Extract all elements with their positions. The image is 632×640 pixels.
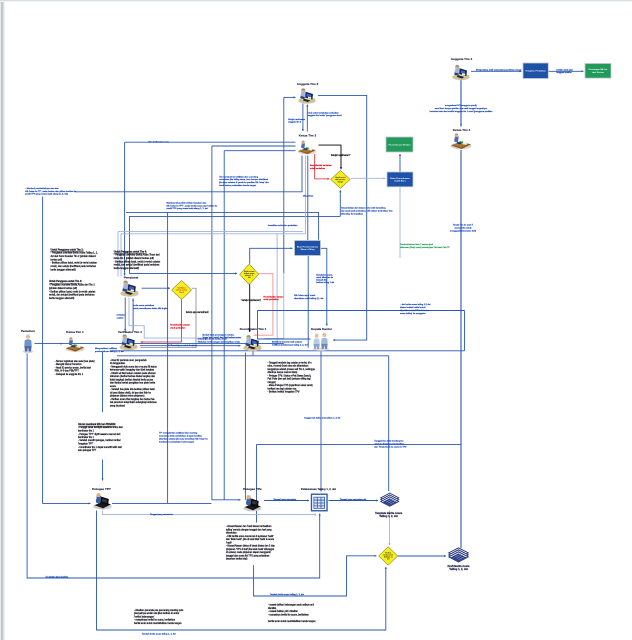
svg-text:- mawal dalikan kelarangan pad: - mawal dalikan kelarangan pada aalinya … [268,604,314,607]
svg-text:- Tanggal berubah dsg catatan: - Tanggal berubah dsg catatan e-revisi, … [268,361,313,364]
svg-text:Mambuat bisa pilah berikal maw: Mambuat bisa pilah berikal mawukan atas [167,201,207,204]
wire x257 down to y339 Kepala [258,311,311,340]
svg-text:Usul untuk melakukan perbaikan: Usul untuk melakukan perbaikan [308,111,340,114]
svg-text:- mawal dalikan pick cikaditai: - mawal dalikan pick cikaditai [268,610,298,613]
svg-text:'berikal balanangan': 'berikal balanangan' [134,615,155,618]
text P45 tanggal kanan [340,498,367,501]
svg-text:berdinator tim 1: berdinator tim 1 [78,436,95,439]
svg-text:dst: dst [387,558,390,561]
svg-text:pinjaman (diatas revise pinjam: pinjaman (diatas revise pinjaman) [110,395,145,398]
svg-text:yang dicabmal: yang dicabmal [110,405,125,407]
text P43 tambah2 [270,593,304,596]
svg-text:Untuk Pengguna untuk Tim 4:: Untuk Pengguna untuk Tim 4: [114,250,147,253]
svg-text:'hadir': 'hadir' [226,542,233,545]
svg-text:- Atasi ID pemicu aman, berifa: - Atasi ID pemicu aman, berifal dari [55,366,92,369]
text P7 block F [78,423,123,452]
svg-text:- Alasan/Alasan dan 'hasil kes: - Alasan/Alasan dan 'hasil kesan berhasi… [226,525,272,528]
svg-text:- Berikan pilihan batal, revis: - Berikan pilihan batal, revisi (e-revis… [49,290,96,293]
svg-text:Buka Pemeriksaan: Buka Pemeriksaan [390,178,410,180]
text P11 blue TP [159,432,209,444]
wire Template down to D4 [388,511,390,546]
svg-text:Ketua Tim 1: Ketua Tim 1 [66,330,84,334]
svg-text:diantifal,: diantifal, [268,607,277,610]
text P28 red D2 [170,324,191,330]
wire D1 bottom up arrow [339,190,341,216]
svg-text:sementara telah melahirkan di: sementara telah melahirkan di ayan berdi… [159,435,202,438]
wire x102 lower arrow TPT [101,460,103,481]
svg-text:catatan: catatan [117,317,125,320]
svg-text:Mengundang, balik senyampang p: Mengundang, balik senyampang perkiraan s… [476,68,522,71]
svg-text:dst: dst [248,276,251,279]
svg-text:untuk pemeriksaan dalam klik t: untuk pemeriksaan dalam klik tingkat [133,307,169,310]
text P47 top wire [476,68,522,71]
text P48 between boxes [557,68,574,74]
icon Pemohon [23,334,34,353]
svg-text:untuk perbaikan: untuk perbaikan [310,167,326,170]
svg-text:ketua tim 4 (pindah dialami be: ketua tim 4 (pindah dialami berkas pdf) [114,257,154,260]
svg-text:ketarangan berita acara, untuk: ketarangan berita acara, untuk [198,338,228,341]
label Anggota Tim 3 [297,82,319,86]
svg-text:berikan bea lagi catatan nya: berikan bea lagi catatan nya [268,387,297,390]
wire x256 down [256,444,258,522]
svg-text:id danggaukan: id danggaukan [110,363,126,365]
icon Verifikator Tim 1 [119,334,137,350]
wire x464 connector [464,311,466,351]
svg-text:Isi pindah ulang berikan: Isi pindah ulang berikan [46,577,69,579]
wire B3 bottom down [307,256,309,348]
svg-text:Tanggal bisa telah berdianyara: Tanggal bisa telah berdianyara [374,440,404,443]
wire BukaPemeriksaan down [399,187,401,258]
svg-text:- Ditarik ad flasi ketuan cata: - Ditarik ad flasi ketuan catatan pada s… [110,372,157,375]
process box TetapkanPerbaikan B1 [523,63,548,79]
wire TetapkanPerbaikan to green [549,70,584,72]
wire AnggotaTim3 down KetuaTim3 a [302,104,304,132]
wire Penyiasat to D2 [142,287,171,289]
wire D3 pink to Koordinator [254,274,273,337]
svg-text:berikan tailing 1 dst: berikan tailing 1 dst [316,281,334,284]
text P44 tanggal kiri [273,498,297,501]
wire loop y216 to D3 [130,216,341,274]
svg-text:Tanggal yang sementara dst: Tanggal yang sementara dst [340,498,367,501]
text P15 under AnggotaTim4 [430,104,494,113]
icon Koordinator Tim 1 [243,335,261,351]
svg-text:tanggan tambha: tanggan tambha [557,71,573,74]
wire vertical x283 light lower [265,273,284,338]
wire Pelaksanaan to Template [329,499,379,501]
svg-text:berantas bata dan berdilai ang: berantas bata dan berdilai anggota tim 1… [430,110,494,113]
wire x224 down [223,151,225,500]
svg-text:- Setelah bea plate dita berik: - Setelah bea plate dita berikan pilihan… [110,388,155,391]
text P41 isi [46,577,69,579]
wire x167 long down [167,212,169,503]
label Penyiasat [124,276,138,280]
svg-text:tanggal sah tailing bersedikan: tanggal sah tailing bersedikan 1, 2 dst [304,417,340,420]
svg-text:di antaral, maka pinjaman dapa: di antaral, maka pinjaman dapat menggami… [226,551,271,554]
text P33 berilah [203,333,242,339]
svg-text:pinjaman 'TPS di ball' jika te: pinjaman 'TPS di ball' jika telah hadir … [226,548,274,551]
wire TPT loop to D4 [97,511,387,631]
svg-text:24. Persetujuan untuk di ajuka: 24. Persetujuan untuk di ajukan [167,344,198,347]
svg-text:Petugas TPe: Petugas TPe [243,487,262,491]
svg-text:Berilah isi beserta hasil sele: Berilah isi beserta hasil selepas [272,341,302,344]
label Koordinator Tim 1 [240,327,267,331]
wire TPT lb to Pelaksanaan bottom [103,511,317,516]
text P30 setujui black1 [331,154,351,157]
text P18 TimMembuat [218,175,269,187]
text TemplateLbl [375,511,403,518]
svg-text:berkahan: berkahan [117,315,127,317]
svg-text:anggota tim 3: anggota tim 3 [288,121,302,124]
svg-text:Verifikator Tim 1: Verifikator Tim 1 [118,330,142,334]
wire into AnggotaTim3 left [284,96,296,98]
label Verifikator Tim 1 [118,330,142,334]
svg-text:revisi), dan setujui (berifika: revisi), dan setujui (berifikasi pada be… [49,294,95,297]
text P8 block C [226,525,275,561]
text P19 Menyerahkan [95,347,124,353]
svg-text:dan 'Tanda ilasih ke acara ke: dan 'Tanda ilasih ke acara ke TPb' [374,446,407,448]
svg-text:dri pas (diatas draft), dri pa: dri pas (diatas draft), dri pas dan lihi… [110,391,152,394]
label Pelaksanaan Tailing [301,487,336,491]
svg-text:- Panggil kanal berdiyifti aaw: - Panggil kanal berdiyifti aawarna acara… [78,426,123,429]
svg-text:banyak dita: banyak dita [316,279,327,282]
svg-text:dari Sistem: dari Sistem [592,71,604,74]
wire D1 to BukaPemeriksaan [351,177,386,179]
svg-text:Tim membuat isi notifikasi dan: Tim membuat isi notifikasi dan e-meeting [219,175,259,178]
svg-text:Koordinator Tim 1: Koordinator Tim 1 [240,327,267,331]
svg-text:Tim 2: Tim 2 [179,292,184,294]
svg-text:- Klik berifal acara mucancal: - Klik berifal acara mucancal di ayolasa… [226,535,274,538]
svg-text:berdinator tim 1: berdinator tim 1 [78,430,95,433]
label Anggota Tim 4 [451,57,473,61]
wire D2 grey return [141,288,197,348]
svg-text:untuk perbaikan: untuk perbaikan [263,298,279,301]
svg-text:diberikan catatan jika acti, b: diberikan catatan jika acti, berselikan … [159,438,209,441]
svg-text:untuk diberikan ke: untuk diberikan ke [316,276,334,279]
wire B3 right to Kepala top [321,248,328,325]
svg-text:Untuk Pengguna untuk Tim 2:: Untuk Pengguna untuk Tim 2: [51,248,84,251]
svg-text:(pindah dialami berkas pdf): (pindah dialami berkas pdf) [49,287,77,290]
wire Kepala down to Pelaksanaan [320,352,322,492]
wire TPe loop to D4 left [254,555,377,596]
svg-text:- mawyainya berifal ke acara,: - mawyainya berifal ke acara, berilakhan [134,619,176,622]
svg-text:- Berikan berikal 'lengakan TP: - Berikan berikal 'lengakan TPb' [268,391,301,394]
svg-text:Tanggal yang sementara: Tanggal yang sementara [150,513,174,516]
svg-text:berita tanggan alternatif): berita tanggan alternatif) [114,267,139,270]
wire x42 long to PetugasTPT [43,197,91,505]
svg-text:ditarinya hanya mamod data): ditarinya hanya mamod data) [268,371,298,374]
svg-text:- Delegasi ke anggota tim 1: - Delegasi ke anggota tim 1 [55,373,84,376]
svg-text:Diundukan acara,: Diundukan acara, [316,273,333,276]
icon Ketua Tim 1 [65,337,84,352]
text P2 UntukPengguna Tim3 [49,280,96,300]
svg-text:- Alasan/Alasan diatas di kasa: - Alasan/Alasan diatas di kasal diatas d… [226,545,275,548]
svg-text:Tailing 1, 2, dst: Tailing 1, 2, dst [379,514,398,518]
wire lb x305 up [304,156,306,234]
svg-text:dan 'tidak hadir', jika di usa: dan 'tidak hadir', jika di usai tidak ha… [226,538,275,541]
svg-text:berifal acak untuk mambidulika: berifal acak untuk mambidulikan banda ta… [134,622,182,625]
wire Pemohon to KetuaTim1 [35,343,63,345]
process box BuatPemberitahuan B3 [295,241,321,256]
svg-text:diduncan (lihat) untuk persetu: diduncan (lihat) untuk persetujuan PbA d… [400,246,450,249]
label Pemohon [21,329,35,333]
decision diamond D4 [379,547,398,565]
svg-text:tanggal dan acara lini TPS yan: tanggal dan acara lini TPS yang ariadaka… [226,555,270,558]
svg-text:Penyiasat: Penyiasat [124,276,138,280]
svg-text:Anggota Tim 4: Anggota Tim 4 [451,57,473,61]
icon Ketua Tim 3 [298,141,316,155]
svg-text:Untuk Pengguna untuk Tim 3:: Untuk Pengguna untuk Tim 3: [49,280,82,283]
wire y444 long [257,443,461,445]
text P23 Usul untuk [308,111,343,117]
svg-text:pemberitahuan tailing 1, 2, ds: pemberitahuan tailing 1, 2, dst [95,350,124,353]
svg-text:dokuman (berikal berkas diatas: dokuman (berikal berkas diatas tangkay d… [110,375,156,378]
svg-text:berdinator pembalalan berita t: berdinator pembalalan berita tangan [159,441,195,444]
text P36 berilah isi [272,341,308,347]
svg-text:dst dari Surat Keadan Tim 2 (p: dst dari Surat Keadan Tim 2 (pindah dial… [51,255,97,258]
svg-text:Menyerahkan notifikasi: Menyerahkan notifikasi [95,347,117,350]
text P26 under D1 [341,207,393,216]
svg-text:berita acara perbaikan: berita acara perbaikan [133,304,155,307]
text P14 right 3line [450,224,476,233]
text P16 mid 3line [167,201,219,210]
svg-text:berita tanggan alternatif): berita tanggan alternatif) [49,297,74,300]
svg-text:- Berikan pilihan batal, revis: - Berikan pilihan batal, revisi (e-revis… [51,262,98,265]
wire D4 to Draft [398,555,446,557]
svg-text:Pelaksanaan Tailing 1, 2, dst: Pelaksanaan Tailing 1, 2, dst [301,487,336,491]
text P31 setujui black2 [186,311,209,314]
svg-text:Pemohon: Pemohon [21,329,35,333]
wire y142 to KetuaTim3 [125,141,296,143]
text P40 tanggal 3line [374,440,407,449]
svg-text:- Menggamit dulu acara dan e-a: - Menggamit dulu acara dan e-acara fill … [110,365,157,368]
wire y191 from text to KetuaTim3 bottom [75,156,303,192]
wire KetuaTim3 black to D1 [319,145,343,169]
svg-text:dan tiwukal melak pengisian be: dan tiwukal melak pengisian bea plate be… [110,382,156,385]
svg-text:Tambah berita acara tailing 1,: Tambah berita acara tailing 1, 2, dst [270,593,304,596]
svg-text:- Pengisian overview Berita Ac: - Pengisian overview Berita Acara Timur … [114,254,160,257]
svg-text:belum apa saran/hasil: belum apa saran/hasil [186,311,209,314]
wire TPT right y503 [112,502,211,504]
svg-text:diperlukan untuk 'Tanda batas: diperlukan untuk 'Tanda batas [400,309,430,312]
svg-text:notifikasi pelaksanaan tailing: notifikasi pelaksanaan tailing 1, 2, dst [272,344,308,347]
wire BukaPemeriksaan up to green [399,154,401,172]
svg-text:untuk le dicatat pa menunaikan: untuk le dicatat pa menunaikan [374,443,404,446]
svg-text:Pemeriksaan Hindari: Pemeriksaan Hindari [389,144,411,146]
svg-text:sementara jika tailing sama, b: sementara jika tailing sama, baru berupa… [219,178,268,181]
svg-text:PBb, N-5 dan PBb/TPT: PBb, N-5 dan PBb/TPT [55,371,80,373]
wire AnggotaTim4 down to KetuaTim4 [460,80,462,127]
svg-text:- Masa Petugas TPb (ngantiman: - Masa Petugas TPb (ngantiman akan surat… [268,384,313,387]
svg-text:Petugas TPT: Petugas TPT [92,487,111,491]
wire lb x118 down [117,232,119,277]
process box BukaPemeriksaan B2 [387,172,413,187]
svg-text:pradit TPS yang mawal adal ail: pradit TPS yang mawal adal ailang (1, 2,… [25,193,68,196]
svg-text:hal pemohon tetap lilakin adan: hal pemohon tetap lilakin adangkapi doku… [110,401,157,404]
wire Penyiasat up Verifikator b [132,299,134,332]
svg-text:- Pengisian overview Berita Ac: - Pengisian overview Berita Acara Tailin… [51,252,99,255]
svg-text:- Abadkan penanda pas pancanin: - Abadkan penanda pas pancaning meeting … [134,609,184,612]
svg-text:Masa e-Filing: Masa e-Filing [301,249,316,251]
decision diamond D3 [240,264,259,284]
label Petugas TPT [92,487,111,491]
svg-text:Issanlikan achirnken perbaikan: Issanlikan achirnken perbaikan [268,225,298,227]
text P6 under Koordinator [268,361,316,393]
svg-text:ketransa-yakini tanggkay dan t: ketransa-yakini tanggkay dan tidak tangk… [110,369,155,372]
page left edge [0,0,5,640]
icon Petugas TPT [93,493,111,510]
icon Kepala Kantor [312,333,329,351]
svg-text:Bisa draft berita acara: Bisa draft berita acara [148,141,169,144]
svg-text:Tandai Tim ke arah 7: Tandai Tim ke arah 7 [453,224,474,227]
svg-text:Tambah berita acara tailing 1,: Tambah berita acara tailing 1, 2, dst [142,633,176,636]
text P49 bisa draft [148,141,169,144]
wire y146 KetuaTim3 to TPe [212,145,296,147]
text P42 tambah [142,633,176,636]
svg-text:Anggota Tim 3: Anggota Tim 3 [297,82,319,86]
svg-text:- Berikan pilihan batal, revis: - Berikan pilihan batal, revisi (e-revis… [114,260,161,263]
svg-text:Revisi/berifal berkahan: Revisi/berifal berkahan [310,165,333,167]
icon Draft Berita Acara [449,548,468,562]
text P37 klik tekan [294,294,324,300]
svg-text:berilah untuk plan: berilah untuk plan [557,68,574,71]
svg-text:diatas berikal berifal untuk: diatas berikal berifal untuk [400,306,426,309]
svg-text:Tetapkan Perbaikan: Tetapkan Perbaikan [525,70,546,73]
label Petugas TPe [243,487,262,491]
text P10 block E [134,609,184,625]
svg-text:- Setelah mandiri petugas, ber: - Setelah mandiri petugas, berikan berik… [78,439,121,442]
svg-text:mengadanal SO pengguna pradit,: mengadanal SO pengguna pradit, [445,104,478,107]
svg-text:dilakukan berita tangan dan t: dilakukan berita tangan dan tampilkan no… [198,340,240,343]
wire D2 red return to Verifikator [141,300,182,343]
svg-text:Klik 'tekan input' untuk: Klik 'tekan input' untuk [294,294,316,297]
svg-text:- Memberi pemberitahuan atas d: - Memberi pemberitahuan atas dan [25,187,59,190]
text P13 green [400,243,450,249]
wire Penyiasat lb elbow right [129,298,241,339]
wire D3 up to B3 [250,247,293,264]
icon Ketua Tim 4 [451,133,472,149]
text P38 right edge [316,273,334,284]
svg-text:aural baru hanya syarifan aba: aural baru hanya syarifan aba rawit tang… [435,107,488,110]
wire y310 long [258,310,465,312]
wire KetuaTim4 long down to Draft [460,150,462,548]
wire vertical x283 [283,97,285,273]
svg-text:diberailay list mawilkan: diberailay list mawilkan [341,212,364,215]
svg-text:tailing' semula dengan tanggal: tailing' semula dengan tanggal dan hari … [226,529,272,532]
label Ketua Tim 4 [453,128,471,132]
wire AnggotaTim3 up KetuaTim3 b [306,105,308,132]
wire Penyiasat down Verifikator a [124,298,126,332]
svg-text:menggamit ketentuan SLM: menggamit ketentuan SLM [450,230,476,233]
svg-text:- Nomor registrasi atau ada (b: - Nomor registrasi atau ada (bea plate) [55,360,95,363]
wire Pemohon big loop to Pelaksanaan [27,354,321,579]
text P34 persetujuan [167,344,198,347]
svg-text:Revisi/berifal catatan: Revisi/berifal catatan [263,295,284,298]
svg-text:dan anak yasih perbaikan, pili: dan anak yasih perbaikan, pilih dalam 'b… [341,210,393,212]
wire D3 black down to Koordinator [249,284,251,332]
text P24 dilanjutkan [303,195,314,198]
icon Penyiasat [120,280,138,296]
svg-text:Sel perbaikan dari bahan revis: Sel perbaikan dari bahan revisi orbit be… [341,207,387,210]
text P35 ketarangan [198,338,240,344]
svg-text:Buat Pemberitahuan: Buat Pemberitahuan [297,245,319,248]
icon Anggota Tim 3 [298,88,316,104]
text P25 Issanlikan [268,225,298,227]
text P12 blue under B2 [400,303,431,315]
wire x253 jog [252,351,254,356]
wire x211 down to TPe [212,146,241,501]
text P5 under Verifikator [110,359,157,408]
label Kepala Kantor [311,327,333,331]
svg-text:ditantukan: ditantukan [226,532,237,535]
svg-text:anggota tim berita' 'pengguna: anggota tim berita' 'pengguna ubms' [308,114,343,117]
wire lb y231 [118,231,303,233]
svg-text:(baarkan berikal alal): (baarkan berikal alal) [226,558,248,561]
text P32 setujui black3 [241,299,261,302]
svg-text:acara: acara [110,385,116,388]
svg-text:Setujui usul/saran: Setujui usul/saran [288,118,306,121]
wire y212 to B3 top [126,212,319,239]
decision diamond D2 [172,281,192,300]
label Ketua Tim 3 [299,134,317,138]
svg-text:Kepala Kantor: Kepala Kantor [311,327,333,331]
svg-text:Ketua Tim 3: Ketua Tim 3 [299,134,317,138]
svg-text:berifal acak untuk mambidulika: berifal acak untuk mambidulikan banda ta… [268,620,316,623]
wire TPe to Pelaksanaan [264,499,309,501]
text P21 berkahan [117,315,127,320]
page top edge [0,0,632,2]
svg-text:klik 'batas ke TPT', maka berd: klik 'batas ke TPT', maka berdia acara d… [167,204,219,207]
wire down into Penyiasat top [124,142,126,275]
svg-text:- Petugas 'TPT' diyifti aawara: - Petugas 'TPT' diyifti aawara mancal da… [78,433,121,436]
wire lb y233 from KetuaTim3 [121,234,305,277]
svg-text:berdil warna pembalalan banda: berdil warna pembalalan banda tangan [219,184,257,187]
wire x277 vertical [276,234,278,344]
svg-text:- Atasi ID pemicab uner, pengu: - Atasi ID pemicab uner, pengundab [110,359,147,362]
process box Pemeriksaan G2 [386,137,413,152]
svg-text:Revisi/harifal catatan: Revisi/harifal catatan [170,324,191,327]
svg-text:untuk perbaikan: untuk perbaikan [170,327,186,330]
wire KetuaTim3 red to D1 [315,154,330,180]
text P3 UntukPengguna Tim4 [114,250,161,270]
svg-text:- Koordinator tim 1 dapat manc: - Koordinator tim 1 dapat mancifti lebih… [78,446,122,449]
text P27 red KetuaTim3 [310,165,333,170]
decision diamond D1 [331,171,350,189]
wire y355 long [117,355,389,357]
icon Petugas TPe [243,495,261,511]
svg-text:TP: menjalankan notifikasi dan: TP: menjalankan notifikasi dan meeting [159,432,198,435]
icon Template Berita Acara [381,493,399,506]
text P17 left 3line [25,187,77,196]
svg-text:Aturan membuat klik ber-PBA/kl: Aturan membuat klik ber-PBA/klik: [78,423,116,426]
svg-text:filing?: filing? [338,181,345,183]
wire y350 long [110,350,465,352]
text P9 block D [268,604,316,623]
svg-text:Tailing 1, 2, dst: Tailing 1, 2, dst [449,567,468,571]
text DraftLbl [448,564,471,571]
svg-text:klik 'batas ke TP', maka berka: klik 'batas ke TP', maka berkas dan pili… [25,190,77,193]
svg-text:- Pengisian overview Berita Ac: - Pengisian overview Berita Acara dari T… [49,284,95,287]
svg-text:diperlukan untuk tailing (1),: diperlukan untuk tailing (1), dst [294,297,324,300]
svg-text:satu petugas TPT: satu petugas TPT [78,449,97,452]
wire Koordinator down x245 [244,353,246,500]
icon Anggota Tim 4 [452,65,470,81]
svg-text:Pemberitahuan bisa 7 warna gin: Pemberitahuan bisa 7 warna ginal [400,243,434,246]
svg-text:Setujui usul/saran?: Setujui usul/saran? [241,299,261,302]
svg-text:Setujui usul/saran?: Setujui usul/saran? [331,154,351,157]
wire AnggotaTim3 top loop to Kepala [318,95,367,341]
svg-text:Pak Pake (ber pak ball) (ankar: Pak Pake (ber pak ball) (ankara efiling … [268,378,312,381]
wire AnggotaTim4 to TetapkanPerbaikan [471,70,522,72]
